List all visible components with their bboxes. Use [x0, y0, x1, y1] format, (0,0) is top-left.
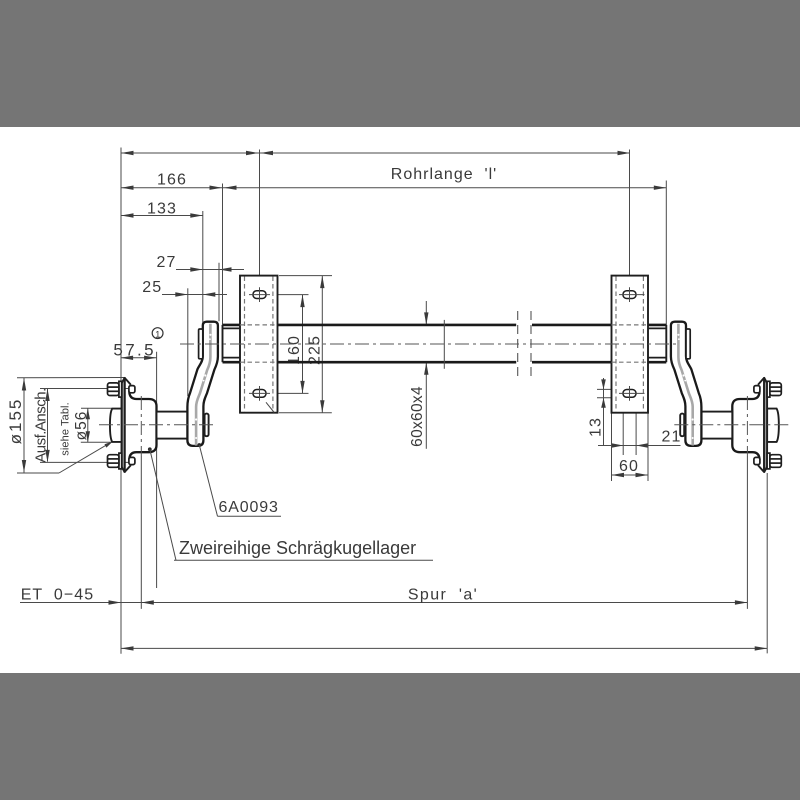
dim o56 leader diagonal [59, 442, 111, 473]
tube hidden edges (dashed) [612, 324, 649, 326]
hub drum bell [129, 391, 156, 460]
spindle end cap [680, 414, 684, 437]
svg-text:Rohrlange 'l': Rohrlange 'l' [391, 166, 497, 183]
svg-text:133: 133 [147, 201, 177, 218]
dim row2: 166 and Rohrlange 'l' [121, 187, 666, 189]
dim 21 line (slot length, outside arrows) [598, 445, 681, 447]
bottom gray band [0, 673, 800, 800]
wheel stud bottom [119, 453, 122, 469]
arm shading stripe [678, 324, 692, 446]
torsion bushing washer [686, 329, 690, 359]
stub axle spindle [157, 412, 188, 439]
svg-text:1: 1 [155, 329, 160, 339]
svg-text:60: 60 [619, 458, 639, 475]
dim o56 refs [81, 407, 112, 409]
extension line right hub centerline x=747.4 [746, 456, 748, 609]
spindle end cap [205, 414, 209, 437]
extension line tube left end / 166 x=222.5 [222, 184, 224, 325]
axle tube bottom edge [223, 361, 241, 364]
wheel stud top [119, 381, 122, 397]
RIGHT hub, arm, bolts (mirrored) [671, 322, 781, 473]
top gray band [0, 0, 800, 127]
torsion bushing washer [199, 329, 203, 359]
dim Ausf.Ansch. refs (bolt centers) [40, 388, 133, 390]
trailing arm [671, 322, 702, 446]
svg-text:13: 13 [588, 417, 605, 437]
extension line left hub centerline x=141.3 [140, 456, 142, 609]
bracket slot hole left y=294.6 [253, 291, 266, 299]
stripe highlight gaps [677, 334, 679, 336]
svg-text:siehe Tabl.: siehe Tabl. [60, 402, 72, 456]
trailing arm [187, 322, 218, 446]
extension line bearing plane / 57.5 right x=156.6 [156, 352, 158, 588]
white drawing sheet [0, 127, 800, 673]
extension line right hub face x=767.2 [766, 473, 768, 653]
dim 160 refs (hole centers) [249, 294, 309, 296]
dim 25 (outside arrows) [162, 294, 227, 296]
axle tube top edge [223, 324, 241, 327]
dim 60 line (bracket width) [612, 474, 649, 476]
svg-text:ø155: ø155 [6, 398, 25, 445]
extension line washer-left / 133 x=202.8 [202, 211, 204, 329]
wheel flange plate (o155) [122, 377, 125, 472]
dim 60x60x4 leader lines [425, 301, 427, 325]
leader line Zweireihige [148, 447, 152, 451]
tube end sleeve right [646, 327, 666, 329]
svg-text:21: 21 [662, 429, 682, 446]
bracket fold lines (dashed) [615, 277, 617, 412]
svg-text:ø56: ø56 [73, 411, 90, 441]
flange back chamfer bottom [125, 465, 131, 472]
svg-text:166: 166 [157, 172, 187, 189]
svg-text:57.5: 57.5 [113, 340, 156, 359]
svg-text:25: 25 [142, 279, 162, 296]
svg-text:Spur 'a': Spur 'a' [408, 586, 478, 603]
label Zweireihige Schraegkugellager [174, 559, 433, 561]
grease boss (o56) [110, 409, 122, 442]
bracket slot hole right y=393.4 [623, 390, 636, 398]
svg-text:Ausf.Ansch.: Ausf.Ansch. [33, 388, 50, 463]
dim edge155 refs [17, 377, 124, 379]
hub drum bell [732, 391, 759, 460]
left hub vertical centerline [140, 396, 142, 456]
axle mid mark [443, 320, 445, 369]
right hub vertical centerline [746, 396, 748, 456]
extension line hub mounting face x=121 [120, 148, 122, 654]
flange back chamfer top [125, 378, 131, 385]
svg-text:ET 0−45: ET 0−45 [21, 586, 95, 603]
bracket fold lines (dashed) [244, 277, 246, 412]
grease boss (o56) [767, 409, 779, 442]
dim Ausf.Ansch. line [47, 389, 49, 462]
LEFT hub, arm, bolts [108, 322, 218, 473]
stripe highlight gaps [209, 334, 211, 336]
bracket edge extension lines [611, 414, 613, 482]
tube centerline [180, 343, 677, 345]
circled index 1 [152, 328, 163, 339]
right spindle centerline [674, 424, 790, 426]
arm shading stripe [196, 324, 210, 446]
svg-text:60x60x4: 60x60x4 [409, 386, 426, 447]
tube break mark lines [517, 311, 519, 377]
svg-text:160: 160 [286, 335, 303, 365]
dim 133 [121, 215, 203, 217]
tube left end face [222, 325, 224, 362]
svg-text:6A0093: 6A0093 [219, 499, 279, 516]
stub axle spindle [701, 412, 732, 439]
extension line arm lower-left / 25 x=187.8 [187, 288, 189, 396]
bracket slot hole left y=393.4 [253, 390, 266, 398]
dim 13 line [603, 378, 605, 446]
slot edge extension lines [622, 398, 624, 456]
tube end sleeve left [223, 327, 243, 329]
dim row ET 0-45 / Spur 'a' [20, 602, 747, 604]
dim 160 line [302, 295, 304, 394]
extension line arm right edge / 27 x=219 [218, 263, 220, 322]
svg-text:Zweireihige Schrägkugellager: Zweireihige Schrägkugellager [179, 538, 416, 558]
left spindle centerline [99, 424, 215, 426]
dim 13 refs (slot top/bottom) [597, 388, 615, 390]
label 6A0093 [218, 515, 282, 517]
dim o56 line [87, 408, 89, 442]
dim 27 (outside arrows) [176, 269, 244, 271]
left mounting bracket [240, 276, 278, 413]
flange back chamfer top [758, 378, 764, 385]
dim row1 lines: hub-face to bracket CL, bracket CL to bracket CL [121, 152, 630, 154]
svg-text:27: 27 [157, 254, 177, 271]
dim 225 line [321, 276, 323, 413]
dim 225 refs (bracket top/bottom) [279, 275, 332, 277]
bracket slot hole right y=294.6 [623, 291, 636, 299]
wheel flange plate (o155) [764, 377, 767, 472]
flange back chamfer bottom [758, 465, 764, 472]
wheel stud top [767, 381, 770, 397]
extension line right bracket centerline x=629.5 [629, 150, 631, 303]
left bracket corner tick [266, 402, 274, 412]
tube right end face [665, 325, 667, 362]
dim o155 line [23, 378, 25, 473]
leader line 6A0093 [197, 443, 201, 447]
extension line tube right end / Rohrlange x=666.3 [665, 181, 667, 325]
right mounting bracket [612, 276, 649, 413]
svg-text:225: 225 [307, 335, 324, 365]
extension line left bracket centerline x=259.5 [259, 150, 261, 303]
dim 57.5 [121, 357, 157, 359]
wheel stud bottom [767, 453, 770, 469]
tube hidden edges (dashed) [240, 324, 278, 326]
dim row overall width [121, 647, 767, 649]
